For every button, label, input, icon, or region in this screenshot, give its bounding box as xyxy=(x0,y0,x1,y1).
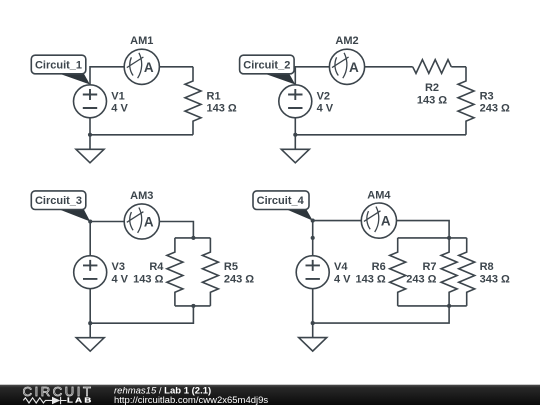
wire AM4 to parallel top xyxy=(397,221,450,238)
wire top rail circuit 4 xyxy=(398,237,467,239)
resistor R1 xyxy=(185,67,201,135)
svg-text:R4: R4 xyxy=(149,261,164,273)
svg-text:4 V: 4 V xyxy=(112,274,129,286)
wire V1 bottom lead xyxy=(89,118,91,135)
svg-text:Circuit_2: Circuit_2 xyxy=(243,60,290,72)
svg-text:R6: R6 xyxy=(372,261,386,273)
ammeter AM3 xyxy=(124,204,159,239)
wire bottom rail circuit 2 xyxy=(295,134,466,136)
voltage source V2 xyxy=(279,85,312,118)
node label tail Circuit_3 xyxy=(58,209,91,222)
ammeter AM1 xyxy=(124,49,159,84)
wire parallel bottom to return xyxy=(90,306,193,323)
node dot circuit2 bottom xyxy=(293,133,297,137)
svg-text:143 Ω: 143 Ω xyxy=(133,274,163,286)
resistor R3 xyxy=(458,67,474,135)
wire bottom rail circuit 4 xyxy=(398,305,467,307)
ammeter AM4 xyxy=(361,203,396,238)
logo LAB xyxy=(67,396,94,404)
voltage source V1 xyxy=(74,85,107,118)
svg-text:R2: R2 xyxy=(425,82,439,94)
wire parallel bottom to return xyxy=(313,306,449,323)
node dot parallel top c4 xyxy=(447,236,451,240)
svg-text:AM1: AM1 xyxy=(130,35,153,47)
node dot circuit3 top xyxy=(88,219,92,223)
logo resistor squiggle xyxy=(23,398,52,403)
wire V4 bottom lead xyxy=(312,289,314,324)
voltage source V4 xyxy=(296,256,329,289)
ground circuit 3 xyxy=(76,323,104,351)
resistor R5 xyxy=(202,238,218,306)
node dot circuit4 top xyxy=(311,219,315,223)
node dot circuit4 mid xyxy=(311,236,315,240)
wire V2 top to AM2 xyxy=(295,67,329,85)
wire V3 bottom lead xyxy=(89,289,91,324)
voltage source V3 xyxy=(74,256,107,289)
wire V2 bottom lead xyxy=(294,118,296,135)
net label Circuit_3 xyxy=(31,191,86,210)
svg-text:AM3: AM3 xyxy=(130,190,153,202)
wire AM3 to parallel top xyxy=(159,222,193,238)
resistor R8 xyxy=(459,238,475,306)
node dot parallel top c3 xyxy=(191,236,195,240)
svg-text:243 Ω: 243 Ω xyxy=(480,103,510,115)
svg-text:V1: V1 xyxy=(111,90,124,102)
svg-text:4 V: 4 V xyxy=(317,103,334,115)
svg-text:http://circuitlab.com/cww2x65m: http://circuitlab.com/cww2x65m4dj9s xyxy=(114,395,268,405)
svg-text:Circuit_3: Circuit_3 xyxy=(35,195,82,207)
wire bottom rail circuit 3 xyxy=(175,305,211,307)
svg-text:AM2: AM2 xyxy=(335,35,358,47)
svg-text:343 Ω: 343 Ω xyxy=(480,274,510,286)
wire AM2 to R2 xyxy=(365,66,413,68)
ground circuit 2 xyxy=(281,135,309,163)
ground circuit 4 xyxy=(299,323,327,351)
ammeter AM2 xyxy=(329,49,364,84)
wire V1 top to corner xyxy=(90,67,124,85)
node dot circuit1 bottom xyxy=(88,133,92,137)
node dot circuit3 bottom xyxy=(88,321,92,325)
svg-text:243 Ω: 243 Ω xyxy=(224,274,254,286)
wire bottom rail circuit 1 xyxy=(90,134,193,136)
svg-text:Circuit_4: Circuit_4 xyxy=(257,195,305,207)
node label tail Circuit_2 xyxy=(263,73,296,85)
resistor R4 xyxy=(167,238,183,306)
svg-text:LAB: LAB xyxy=(67,396,94,404)
wire V4 top lead xyxy=(312,221,314,256)
node label tail Circuit_1 xyxy=(58,73,91,85)
node label tail Circuit_4 xyxy=(285,209,313,221)
svg-text:V4: V4 xyxy=(334,261,348,273)
wire V3 top lead xyxy=(89,222,91,256)
svg-text:AM4: AM4 xyxy=(367,190,391,202)
wire top rail circuit 3 xyxy=(175,237,211,239)
svg-text:4 V: 4 V xyxy=(111,103,128,115)
resistor R7 xyxy=(441,238,457,306)
svg-text:V2: V2 xyxy=(317,90,330,102)
resistor R2 horizontal xyxy=(413,60,452,74)
svg-text:243 Ω: 243 Ω xyxy=(406,274,436,286)
wire node to AM4 xyxy=(313,220,362,222)
net label Circuit_2 xyxy=(240,55,295,74)
svg-text:R5: R5 xyxy=(224,261,238,273)
logo diode xyxy=(52,397,60,405)
wire node to AM3 xyxy=(90,221,124,223)
svg-text:143 Ω: 143 Ω xyxy=(355,274,385,286)
svg-text:4 V: 4 V xyxy=(334,274,351,286)
svg-text:Circuit_1: Circuit_1 xyxy=(35,60,82,72)
node dot circuit4 bottom xyxy=(311,321,315,325)
svg-text:R3: R3 xyxy=(480,90,494,102)
svg-text:R8: R8 xyxy=(480,261,494,273)
svg-text:V3: V3 xyxy=(112,261,125,273)
resistor R6 xyxy=(390,238,406,306)
node dot parallel bottom c4 xyxy=(447,304,451,308)
node dot parallel bottom c3 xyxy=(191,304,195,308)
net label Circuit_4 xyxy=(253,191,309,210)
wire R2 to R3 corner xyxy=(451,66,466,68)
svg-text:143 Ω: 143 Ω xyxy=(417,95,447,107)
svg-text:R1: R1 xyxy=(207,90,221,102)
wire AM1 to R1 xyxy=(159,66,193,68)
net label Circuit_1 xyxy=(31,55,86,74)
ground circuit 1 xyxy=(76,135,104,163)
svg-text:143 Ω: 143 Ω xyxy=(207,103,237,115)
svg-text:R7: R7 xyxy=(422,261,436,273)
